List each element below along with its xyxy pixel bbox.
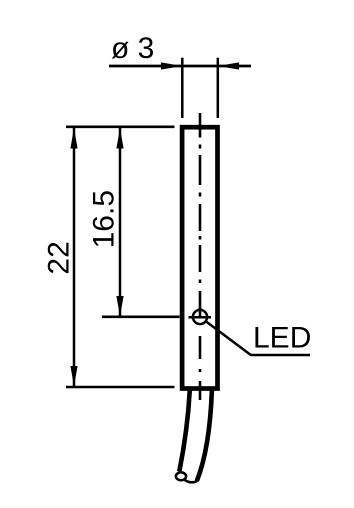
svg-text:22: 22 <box>43 241 76 274</box>
svg-text:16.5: 16.5 <box>87 190 120 248</box>
svg-text:LED: LED <box>253 322 311 355</box>
svg-text:ø 3: ø 3 <box>111 32 154 65</box>
